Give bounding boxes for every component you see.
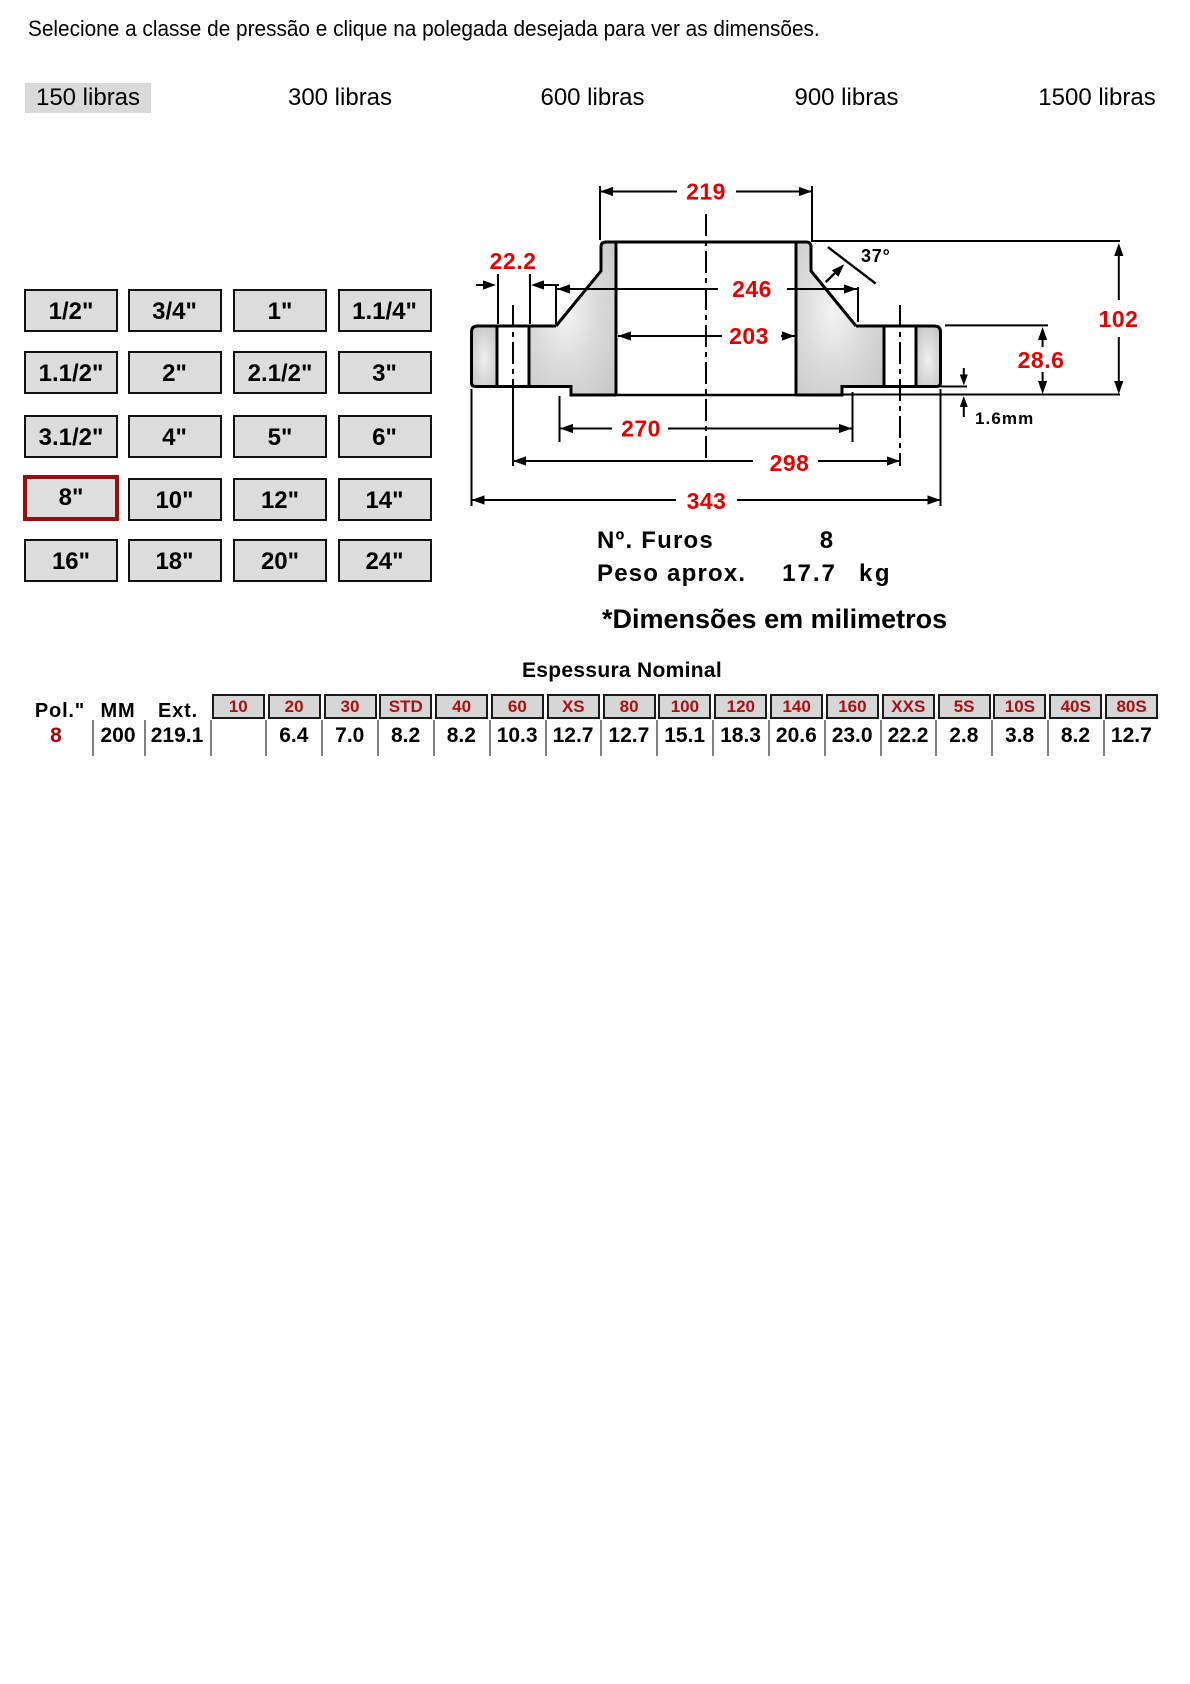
svg-text:28.6: 28.6: [1018, 347, 1065, 373]
column header Ext: [148, 700, 208, 723]
schedule header 80: [603, 694, 656, 719]
table separator: [545, 720, 547, 756]
table separator: [991, 720, 993, 756]
svg-text:343: 343: [687, 488, 727, 514]
schedule header XXS: [882, 694, 935, 719]
svg-text:219: 219: [686, 179, 726, 205]
schedule header 100: [658, 694, 711, 719]
size button 3": [338, 351, 432, 394]
raised face bottom line across bore: [616, 394, 796, 397]
dimension 102: [811, 240, 1120, 242]
table separator: [768, 720, 770, 756]
data cell 120 = 18.3: [714, 724, 767, 748]
size button 2.1/2": [233, 351, 327, 394]
schedule header 60: [491, 694, 544, 719]
table separator: [92, 720, 94, 756]
table separator: [1103, 720, 1105, 756]
schedule header 5S: [938, 694, 991, 719]
svg-text:203: 203: [729, 323, 769, 349]
unit kg: [859, 560, 892, 588]
data cell STD = 8.2: [379, 724, 432, 748]
schedule header 140: [770, 694, 823, 719]
table separator: [1047, 720, 1049, 756]
dimension 22.2: [497, 274, 499, 324]
data cell MM 200: [88, 724, 148, 748]
data cell XS = 12.7: [547, 724, 600, 748]
svg-text:270: 270: [621, 416, 661, 442]
data cell 5S = 2.8: [938, 724, 991, 748]
data cell 40 = 8.2: [435, 724, 488, 748]
svg-text:37°: 37°: [861, 246, 891, 266]
table separator: [210, 720, 212, 756]
dimension 219: [599, 186, 601, 240]
size button 16": [24, 539, 118, 582]
label Peso aprox.: [597, 560, 746, 588]
svg-text:102: 102: [1099, 306, 1139, 332]
pressure class tab 1500 libras: [1030, 83, 1164, 113]
data cell 10S = 3.8: [993, 724, 1046, 748]
pressure class tab 600 libras: [529, 83, 656, 113]
size button 3.1/2": [24, 415, 118, 458]
table separator: [433, 720, 435, 756]
flange axis centerline: [705, 214, 707, 460]
size button 12": [233, 478, 327, 521]
size button 3/4": [128, 289, 222, 332]
table separator: [265, 720, 267, 756]
table separator: [321, 720, 323, 756]
schedule header 30: [324, 694, 377, 719]
dimension 343: [471, 389, 473, 506]
table separator: [935, 720, 937, 756]
size button 24": [338, 539, 432, 582]
note dimensions in millimeters: [602, 604, 947, 635]
table separator: [144, 720, 146, 756]
schedule header 20: [268, 694, 321, 719]
size button 18": [128, 539, 222, 582]
column header MM: [88, 700, 148, 723]
schedule header 120: [714, 694, 767, 719]
flange body right segment with hub and neck: [796, 242, 884, 395]
table separator: [377, 720, 379, 756]
bolt hole left centerline: [512, 305, 514, 387]
size button 14": [338, 478, 432, 521]
size button 1.1/2": [24, 351, 118, 394]
size button 1": [233, 289, 327, 332]
table title Espessura Nominal: [472, 659, 772, 683]
instruction sentence: [28, 16, 820, 42]
flange body left segment with hub and neck: [529, 242, 616, 395]
svg-text:298: 298: [770, 450, 810, 476]
data cell 160 = 23.0: [826, 724, 879, 748]
bolt hole right walls: [883, 326, 886, 387]
flange rim left segment: [472, 326, 498, 387]
schedule header XS: [547, 694, 600, 719]
data cell 30 = 7.0: [324, 724, 377, 748]
table separator: [489, 720, 491, 756]
dimension 270: [559, 396, 561, 442]
dimension 1.6mm: [941, 386, 968, 388]
size button 8 inch (selected): [23, 475, 119, 521]
pressure class tab 900 libras: [783, 83, 910, 113]
bore walls: [615, 242, 618, 395]
size button 2": [128, 351, 222, 394]
table separator: [656, 720, 658, 756]
data cell 20 = 6.4: [268, 724, 321, 748]
size button 1.1/4": [338, 289, 432, 332]
schedule header 10S: [993, 694, 1046, 719]
value 8 furos: [797, 527, 857, 555]
schedule header 40: [435, 694, 488, 719]
label No. Furos: [597, 527, 714, 555]
data cell Pol 8: [26, 724, 86, 748]
table separator: [824, 720, 826, 756]
bevel angle 37 callout: [828, 247, 876, 284]
pressure class tab 150 libras (selected): [25, 83, 151, 113]
value 17.7: [779, 560, 840, 588]
data cell Ext 219.1: [147, 724, 207, 748]
dimension 246: [555, 285, 557, 324]
size button 5": [233, 415, 327, 458]
schedule header 40S: [1049, 694, 1102, 719]
size button 1/2": [24, 289, 118, 332]
data cell 80S = 12.7: [1105, 724, 1158, 748]
size button 6": [338, 415, 432, 458]
data cell 100 = 15.1: [658, 724, 711, 748]
flange disc top edge: [472, 326, 617, 395]
table separator: [712, 720, 714, 756]
column header Pol: [30, 700, 90, 723]
data cell 140 = 20.6: [770, 724, 823, 748]
pressure class tab 300 libras: [277, 83, 403, 113]
table separator: [880, 720, 882, 756]
svg-text:22.2: 22.2: [490, 248, 537, 274]
data cell 60 = 10.3: [491, 724, 544, 748]
bolt hole left walls: [496, 326, 499, 387]
dimension 298: [513, 460, 753, 462]
dimension 28.6: [945, 324, 1048, 326]
schedule header 160: [826, 694, 879, 719]
flange rim right segment: [916, 326, 941, 387]
data cell 40S = 8.2: [1049, 724, 1102, 748]
size button 20": [233, 539, 327, 582]
schedule header STD: [379, 694, 432, 719]
size button 4": [128, 415, 222, 458]
schedule header 10: [212, 694, 265, 719]
svg-text:1.6mm: 1.6mm: [975, 409, 1034, 428]
flange drawing: [0, 0, 1190, 660]
flange outline top and taper: [556, 242, 856, 326]
schedule header 80S: [1105, 694, 1158, 719]
svg-text:246: 246: [732, 276, 772, 302]
data cell 80 = 12.7: [603, 724, 656, 748]
table separator: [600, 720, 602, 756]
dimension 203: [618, 335, 722, 337]
data cell XXS = 22.2: [882, 724, 935, 748]
size button 10": [128, 478, 222, 521]
bolt hole right centerline: [899, 305, 901, 466]
